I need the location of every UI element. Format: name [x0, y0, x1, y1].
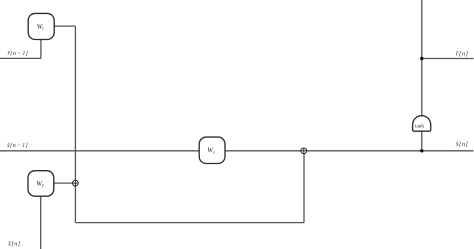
wire: Wy bottom down off page [40, 196, 42, 249]
box Wr [28, 13, 54, 39]
wire: vertical from top edge down to tanh [421, 0, 423, 116]
wire: input r[n-1] horizontal at left [0, 57, 41, 59]
wire: adder A1 down [74, 186, 76, 223]
wire: long vertical from Wr down to adder A1 [74, 26, 76, 180]
wire: bottom feedback horizontal [75, 222, 304, 224]
adder A1 [73, 180, 79, 186]
box Wx [199, 137, 225, 163]
wire: tanh bottom to x[n] line [421, 131, 423, 151]
adder A2 [301, 148, 307, 154]
wire: x[n-1] line from left edge to box Wx [0, 150, 199, 152]
svg-text:x̂[n − 1]: x̂[n − 1] [6, 142, 28, 149]
wire: adder A2 to right edge (x[n]) [307, 150, 474, 152]
svg-text:r̂[n]: r̂[n] [456, 50, 469, 57]
node dot on x[n] line [420, 149, 423, 152]
node dot top right [420, 57, 423, 60]
box Wy [28, 171, 54, 197]
svg-text:r̂[n − 1]: r̂[n − 1] [8, 50, 29, 57]
tanh block [413, 116, 431, 132]
svg-text:x̂[n]: x̂[n] [455, 141, 469, 148]
wire: Wr right to long vertical [54, 25, 75, 27]
wire: Wy right to adder A1 [54, 182, 73, 184]
svg-text:tanh: tanh [415, 123, 424, 129]
wire: box Wx to adder A2 [225, 150, 301, 152]
wire: junction to right edge (r[n]) [422, 58, 474, 60]
wire: feedback up into adder A2 bottom [303, 154, 305, 223]
svg-text:x̂[n]: x̂[n] [7, 240, 21, 247]
wire: up into box Wr bottom [40, 39, 42, 58]
